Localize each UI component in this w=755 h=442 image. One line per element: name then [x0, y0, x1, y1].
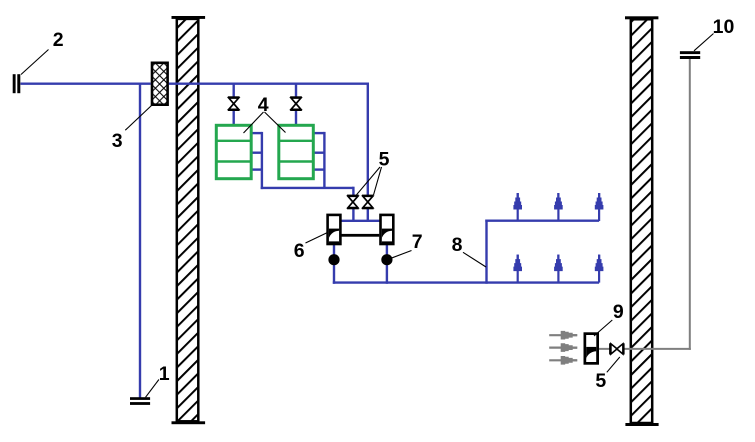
inflow arrow top	[549, 331, 577, 340]
svg-text:4: 4	[258, 94, 269, 116]
filter 3 (crosshatched)	[151, 62, 169, 107]
thick link bar between unit 6 boxes	[342, 234, 380, 237]
pump unit 6 left box	[328, 215, 341, 244]
wire: right pump drop	[386, 244, 388, 284]
svg-text:2: 2	[53, 29, 64, 51]
pump 7 left	[328, 254, 339, 265]
svg-text:1: 1	[159, 363, 170, 385]
outside break symbol 10	[680, 51, 700, 59]
leader to item 2	[21, 50, 49, 75]
valve 5 on gray pipe	[609, 343, 625, 354]
svg-text:8: 8	[452, 234, 463, 256]
valve 5 left of pair	[347, 195, 359, 210]
leader to left valve 5	[357, 167, 381, 195]
wire: drop into left valve of pair 5	[352, 187, 354, 196]
leader to pump 7	[390, 251, 412, 259]
wire: tank 4b collector vertical	[323, 132, 325, 188]
drain outlet break symbol 1	[130, 397, 150, 405]
supply inlet break symbol 2	[13, 74, 21, 93]
wire: left pump drop	[333, 244, 335, 284]
svg-text:5: 5	[379, 148, 390, 170]
wire: riser to upper branch	[485, 220, 487, 284]
wire: manifold between unit 6 boxes	[340, 220, 381, 222]
leader to unit 9	[594, 320, 612, 336]
wire: tank 4b outlet stub top	[314, 132, 324, 134]
injector unit 9 box	[585, 334, 598, 364]
wire: tank 4b outlet stub middle	[314, 151, 324, 153]
wire: tank 4b inlet	[295, 84, 297, 125]
wire: riser down to right valve of pair 5	[367, 83, 369, 197]
wire: tank 4a collector vertical	[261, 132, 263, 189]
leader to valve 5 on gray pipe	[607, 357, 620, 372]
wire: main supply line from inlet 2	[21, 82, 370, 84]
wire: bottom distribution main 8	[333, 281, 599, 283]
wire: drain drop to outlet 1	[139, 84, 141, 398]
left wall (hatched)	[172, 16, 206, 424]
wire: gray pipe from unit 9 through wall	[599, 348, 691, 350]
sprinkler lower row 3	[595, 255, 604, 283]
sprinkler upper row 2	[554, 193, 563, 221]
inflow arrow middle	[549, 343, 577, 352]
sprinkler upper row 3	[595, 193, 604, 221]
leader to item 3	[125, 106, 151, 131]
wire: tank 4a inlet	[232, 84, 234, 125]
leader to pipe 8	[463, 252, 486, 267]
wire: tank collector horizontal to left valve of pair 5	[261, 187, 354, 189]
wire: upper distribution branch	[485, 219, 599, 221]
svg-text:3: 3	[112, 130, 123, 152]
wire: tank 4a outlet stub top	[252, 132, 262, 134]
leader to unit 6	[306, 233, 328, 244]
svg-text:10: 10	[713, 16, 735, 38]
wire: left valve outlet to manifold	[352, 208, 354, 222]
pump unit 6 right box	[381, 215, 394, 244]
wire: gray riser to outside break 10	[689, 59, 691, 350]
leader to item 10	[694, 34, 714, 51]
right wall (hatched)	[625, 16, 659, 426]
leader to item 1	[146, 380, 159, 398]
sprinkler lower row 2	[554, 255, 563, 283]
pump 7 right	[381, 254, 392, 265]
wire: tank 4a outlet stub middle	[252, 151, 262, 153]
valve 5 right of pair	[362, 195, 374, 210]
tank 4b	[279, 125, 314, 178]
leader to right valve 5	[374, 167, 382, 195]
wire: right valve outlet to manifold	[367, 208, 369, 222]
svg-text:9: 9	[613, 301, 624, 323]
leader to tank 4a	[244, 112, 264, 133]
tank 4a	[216, 125, 251, 178]
svg-text:7: 7	[412, 231, 423, 253]
sprinkler upper row 1	[513, 193, 522, 221]
leader to tank 4b	[265, 112, 286, 133]
svg-text:5: 5	[595, 370, 606, 392]
inflow arrow bottom	[549, 356, 577, 365]
valve on tank 4a inlet	[228, 96, 240, 111]
wire: tank 4b outlet stub bottom	[314, 168, 324, 170]
valve on tank 4b inlet	[290, 96, 302, 111]
wire: tank 4a outlet stub bottom	[252, 168, 262, 170]
svg-text:6: 6	[294, 240, 305, 262]
sprinkler lower row 1	[513, 255, 522, 283]
